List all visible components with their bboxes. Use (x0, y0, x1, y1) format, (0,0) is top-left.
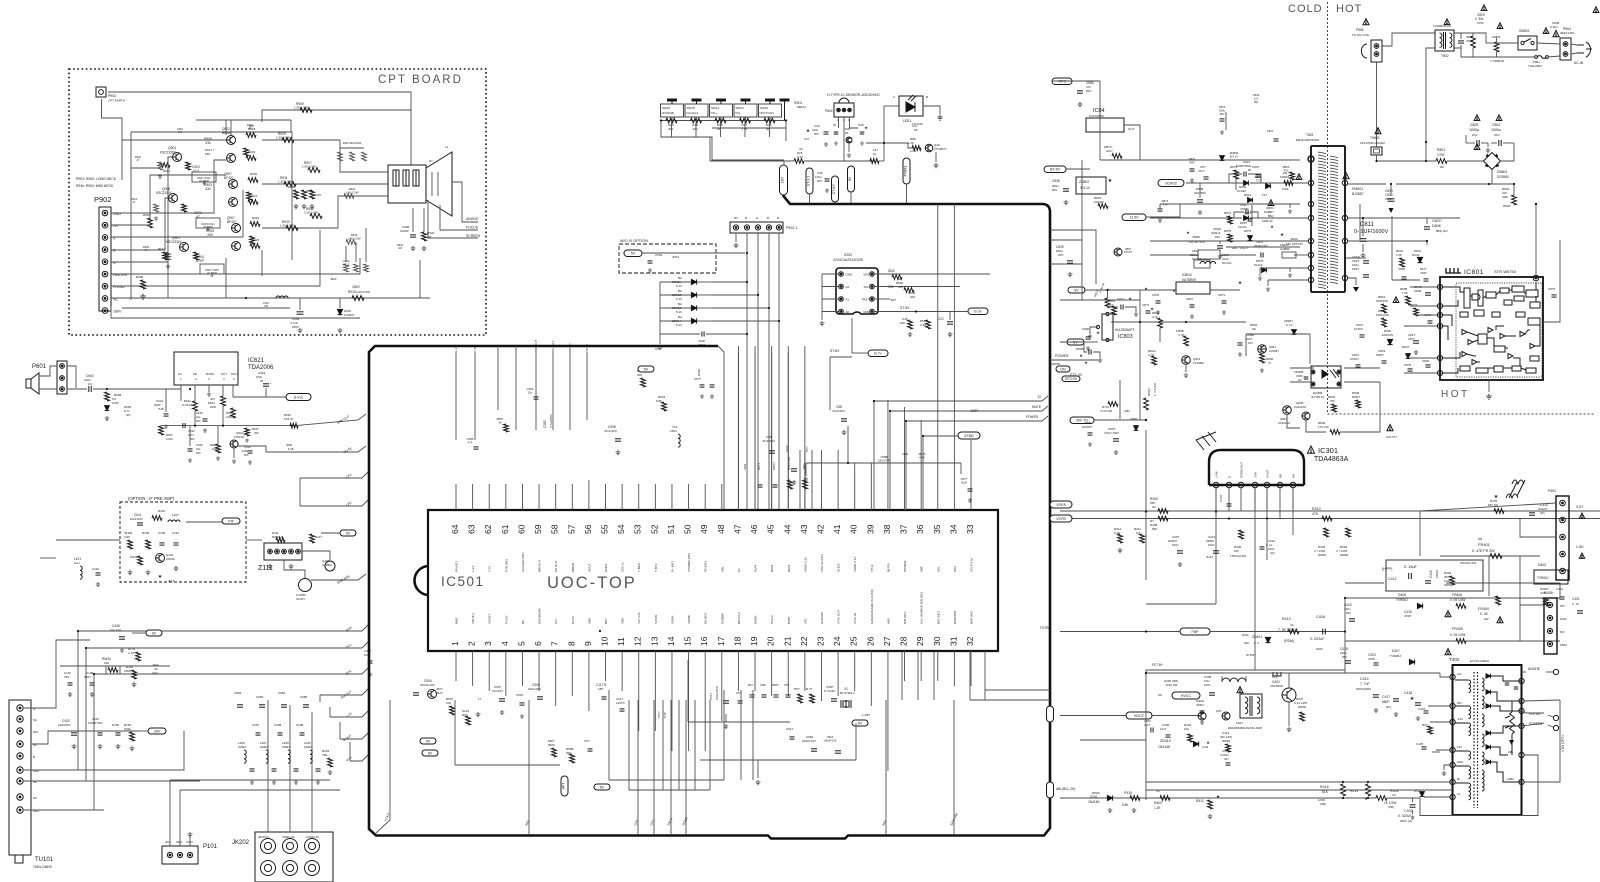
svg-text:TB02: TB02 (1441, 54, 1449, 58)
svg-text:GHD3: GHD3 (837, 563, 841, 572)
svg-text:IC621: IC621 (248, 358, 265, 364)
svg-text:OK(TTV/AV): OK(TTV/AV) (760, 111, 774, 115)
svg-text:C890: C890 (1082, 327, 1090, 331)
divider dashed horizontal (1328, 413, 1595, 415)
wire fuse wires (1548, 56, 1560, 57)
svg-text:TDA4863A: TDA4863A (1314, 456, 1349, 463)
cpt top resistor R909 wire (290, 120, 292, 132)
eeprom right pins (870, 272, 875, 277)
net pill 30V (148, 728, 166, 734)
resistor p101 pull (189, 836, 191, 846)
svg-text:1000o: 1000o (1491, 128, 1501, 132)
svg-text:9V: 9V (152, 631, 157, 635)
svg-text:XTAL OUT: XTAL OUT (837, 609, 841, 624)
gnd ic621 pin3 (208, 389, 210, 392)
svg-text:1/2W: 1/2W (112, 401, 119, 405)
thermistor TH802 (1375, 128, 1381, 134)
svg-text:25: 25 (260, 379, 264, 383)
net pill preamp out (222, 518, 240, 524)
svg-text:<TO CPT>: <TO CPT> (1561, 735, 1565, 752)
svg-text:17: 17 (716, 636, 726, 646)
wire hot gnd ic801 (1488, 380, 1490, 392)
svg-text:KA431AZ: KA431AZ (1278, 421, 1290, 425)
svg-text:VW (5v): VW (5v) (471, 613, 475, 624)
IC301 body (1209, 450, 1304, 485)
svg-text:AT24C04/AT24C02B: AT24C04/AT24C02B (833, 258, 862, 262)
svg-text:1k 5K1/2: 1k 5K1/2 (182, 403, 193, 407)
svg-text:C401: C401 (1572, 597, 1580, 601)
divider dashed vertical (1327, 2, 1329, 414)
svg-text:R903: R903 (143, 213, 151, 217)
svg-text:153/1?0P: 153/1?0P (878, 458, 890, 462)
svg-text:5V: 5V (600, 785, 605, 789)
svg-text:120uF/15V: 120uF/15V (715, 686, 719, 700)
svg-text:(OPTION - IF PRE AMP): (OPTION - IF PRE AMP) (128, 496, 175, 501)
svg-text:D?60: D?60 (112, 723, 120, 727)
wire rgb verticals (746, 233, 748, 510)
wire q812 (1287, 414, 1300, 428)
wire cpt left drop (102, 99, 123, 180)
keypad bus wire (661, 120, 786, 122)
svg-text:P404: P404 (1548, 489, 1556, 493)
capacitor C809 across (1481, 5, 1487, 11)
T803 winding hatch right (1330, 156, 1338, 284)
svg-text:47u?: 47u? (1198, 169, 1205, 173)
wire fr401 (1440, 555, 1540, 557)
svg-text:B: B (33, 755, 35, 759)
svg-text:C209: C209 (296, 723, 304, 727)
svg-text:1M: 1M (427, 235, 432, 239)
svg-text:P5 (NC): P5 (NC) (704, 561, 708, 572)
wire degauss drop (1376, 62, 1378, 147)
svg-text:JW?: JW? (890, 298, 896, 302)
svg-text:SW15: SW15 (687, 106, 696, 110)
svg-text:30V: 30V (33, 730, 38, 734)
wire ic804 (1140, 289, 1176, 291)
wire tuner IF out (24, 640, 90, 708)
warning t802 (1444, 19, 1450, 25)
svg-text:P-IN (NC): P-IN (NC) (504, 559, 508, 572)
resistor R901b 1.6K (308, 168, 320, 173)
wire hout pill (1126, 712, 1152, 719)
svg-text:KTC3?: KTC3? (1124, 250, 1133, 254)
svg-text:ST-6V: ST-6V (830, 349, 840, 353)
svg-text:BhA4: BhA4 (770, 564, 774, 572)
svg-text:15: 15 (683, 636, 693, 646)
wire preamp links (186, 521, 222, 523)
svg-text:R91k: R903: MINI NECK: R91k: R903: MINI NECK (76, 184, 114, 188)
T402 gnd stub (1444, 765, 1453, 770)
output transistor pair green (229, 180, 238, 189)
below IC - pill AFT (561, 776, 568, 796)
resistor R919 (246, 156, 256, 161)
svg-text:Y BY2: Y BY2 (654, 563, 658, 572)
svg-text:C5?: C5? (805, 446, 809, 452)
svg-text:10K?: 10K? (1106, 149, 1113, 153)
svg-text:(MONO): (MONO) (258, 835, 269, 839)
svg-text:R919: R919 (248, 150, 256, 154)
wire main to power horiz1 (1050, 239, 1082, 241)
svg-text:25V: 25V (1342, 655, 1347, 659)
svg-text:150K1/2W: 150K1/2W (1376, 313, 1389, 317)
svg-text:VP1: VP1 (803, 618, 807, 624)
svg-text:50V: 50V (196, 419, 201, 423)
wire abl loop (1387, 755, 1538, 816)
svg-text:C114: C114 (172, 531, 179, 535)
IC501 top pin wires (455, 484, 457, 510)
wire ic803 region (1060, 299, 1140, 301)
svg-text:1 5K: 1 5K (1402, 291, 1408, 295)
wire b+ junction dots (1342, 781, 1344, 783)
power mid extra wires (1050, 230, 1096, 284)
svg-text:330: 330 (207, 233, 213, 237)
svg-text:D84B: D84B (1076, 347, 1084, 351)
wire rgb outputs (262, 139, 340, 141)
power rail t803 top (1225, 112, 1227, 130)
transistor Q402 hout (1282, 688, 1296, 702)
svg-text:R921: R921 (250, 194, 258, 198)
svg-text:Ph+LF: Ph+LF (770, 615, 774, 624)
wire pwm1 to border (906, 184, 908, 203)
svg-text:5V: 5V (428, 751, 433, 755)
svg-text:5V: 5V (644, 367, 649, 371)
svg-text:50V: 50V (1086, 89, 1091, 93)
svg-text:14V: 14V (1457, 745, 1462, 749)
svg-text:10K: 10K (104, 661, 109, 665)
svg-text:VC5 1v: VC5 1v (621, 562, 625, 572)
svg-text:★: ★ (1144, 286, 1148, 291)
svg-text:61: 61 (500, 524, 510, 534)
svg-text:4.7K: 4.7K (919, 455, 925, 459)
connector P902-1 (730, 222, 783, 233)
svg-text:1: 1 (450, 641, 460, 646)
svg-text:TU101: TU101 (35, 857, 54, 863)
svg-text:(RDM): (RDM) (1284, 639, 1294, 643)
svg-text:R441: R441 (1242, 633, 1249, 637)
svg-text:58: 58 (550, 524, 560, 534)
svg-text:VA: VA (290, 417, 294, 421)
svg-text:330: 330 (205, 141, 211, 145)
svg-text:TP 3v: TP 3v (870, 564, 874, 572)
svg-text:0. 05 1/2W: 0. 05 1/2W (1450, 633, 1465, 637)
svg-text:12: 12 (633, 636, 643, 646)
eeprom chip body (836, 268, 878, 314)
resistor R924 cluster (250, 222, 260, 227)
svg-text:JW22: JW22 (1290, 237, 1298, 241)
wire abl bus (1060, 797, 1376, 799)
svg-text:60: 60 (516, 524, 526, 534)
capacitor C28 mid (834, 132, 839, 134)
power v line x1082 (1081, 240, 1083, 300)
svg-text:R937: R937 (314, 193, 322, 197)
svg-text:31: 31 (948, 636, 958, 646)
pill ST-6V left (1044, 166, 1066, 173)
svg-text:R8?5: R8?5 (1224, 229, 1232, 233)
svg-text:BF420: BF420 (222, 131, 232, 135)
T803 right pins (1342, 180, 1347, 185)
svg-text:D405: D405 (1398, 593, 1406, 597)
svg-text:14: 14 (666, 636, 676, 646)
svg-text:IC301: IC301 (1318, 446, 1338, 455)
svg-text:A0: A0 (846, 310, 850, 314)
svg-text:L584: L584 (670, 429, 677, 433)
svg-text:HOT: HOT (1336, 3, 1362, 15)
svg-text:0. 47E FR 2W: 0. 47E FR 2W (1472, 549, 1495, 553)
svg-text:150K/PW: 150K/PW (1376, 299, 1388, 303)
svg-text:220uF/10V: 220uF/10V (420, 683, 435, 687)
svg-text:★: ★ (1494, 494, 1499, 500)
svg-text:ZD401: ZD401 (1252, 635, 1262, 639)
wire led feed row (866, 142, 908, 144)
wire sw801 to plug (1537, 43, 1560, 44)
gnd stubs t803 left (1290, 204, 1296, 208)
wires to bottom border long (528, 700, 530, 835)
svg-text:25: 25 (849, 636, 859, 646)
svg-text:250V: 250V (292, 325, 299, 329)
svg-text:C425: C425 (1416, 742, 1424, 746)
svg-text:C8?1: C8?1 (1218, 293, 1226, 297)
svg-text:VA: VA (1290, 623, 1294, 627)
svg-text:C804: C804 (1492, 123, 1500, 127)
wire p403 drops (1520, 604, 1544, 606)
svg-text:SCL: SCL (936, 566, 940, 572)
svg-text:★: ★ (158, 574, 163, 580)
transistor Q906 (169, 194, 178, 203)
hpp box wires (1345, 582, 1384, 584)
svg-text:P5 (NC): P5 (NC) (455, 561, 459, 572)
wire q811 frame (1245, 334, 1247, 356)
svg-text:25A?: 25A? (436, 691, 443, 695)
svg-text:30: 30 (932, 636, 942, 646)
output transistor pair blue (232, 224, 241, 233)
wire rails t802 right (1454, 33, 1486, 43)
svg-text:38: 38 (882, 524, 892, 534)
svg-text:VPH AV (NC): VPH AV (NC) (820, 554, 824, 572)
wire 180V bus (111, 306, 360, 318)
svg-text:VCCB7: VCCB7 (488, 614, 492, 624)
wire lower t803 (1346, 257, 1366, 259)
svg-text:R511 330: R511 330 (787, 457, 791, 470)
capacitor C621 top small (75, 380, 77, 388)
wire P903 to CRT (108, 92, 411, 165)
wire notch step (718, 346, 724, 510)
cpt long wire p903 branch (122, 139, 226, 141)
net pill 5V above IC (638, 366, 654, 372)
svg-text:75E: 75E (322, 753, 327, 757)
svg-text:ZD802: ZD802 (1079, 180, 1089, 184)
svg-text:32: 32 (965, 636, 975, 646)
svg-text:2.2K/0.5W: 2.2K/0.5W (356, 290, 370, 294)
wire p101 bus (170, 779, 330, 781)
svg-text:47u/16V: 47u/16V (492, 689, 503, 693)
svg-text:7. 7nF: 7. 7nF (1360, 682, 1370, 686)
capacitor C908 1000p (412, 208, 414, 232)
svg-text:B4?: B4? (748, 683, 753, 687)
T402 primary winding segments (1469, 680, 1471, 693)
svg-text:2 2U: 2 2U (188, 433, 194, 437)
resistor R909 1.5K 1/2W wire (262, 110, 340, 122)
ground cluster under resistors (294, 204, 299, 209)
svg-text:5V: 5V (346, 531, 351, 535)
svg-text:C84?: C84? (1186, 297, 1194, 301)
R903 R913 cluster (148, 218, 153, 228)
wire av vertical collectors (319, 695, 321, 702)
T402 pin wires left (1440, 673, 1453, 677)
wire bridge out (1491, 170, 1493, 185)
svg-text:30V: 30V (817, 179, 822, 183)
svg-text:470P: 470P (1368, 657, 1375, 661)
svg-text:0- 1UF/1600V: 0- 1UF/1600V (1354, 229, 1389, 235)
below ic extra verticals (628, 700, 630, 790)
wire tuner bus scl (24, 780, 200, 782)
capacitor C903 cluster (294, 190, 299, 199)
svg-text:D2SB60: D2SB60 (1497, 175, 1509, 179)
resistor R117 (310, 534, 315, 543)
svg-text:FB: FB (264, 304, 268, 308)
svg-text:55: 55 (600, 524, 610, 534)
svg-text:R40MHZ: R40MHZ (272, 535, 283, 539)
wire st8v pill (958, 432, 980, 439)
svg-text:P601: P601 (32, 364, 47, 370)
svg-text:PIF: PIF (228, 519, 234, 523)
net pill ST-BY above IC (830, 356, 852, 358)
IC801 inner dashed (1456, 283, 1542, 377)
svg-text:7UB: 7UB (158, 407, 164, 411)
svg-text:100uF/10V: 100uF/10V (802, 739, 816, 743)
svg-text:40: 40 (849, 524, 859, 534)
svg-text:G: G (113, 261, 116, 265)
svg-text:5GND: 5GND (206, 372, 214, 376)
wire av to main FM_OUT (320, 689, 368, 695)
svg-text:Y-3V: Y-3V (488, 566, 492, 572)
cpt wire stage verticals (167, 262, 169, 298)
svg-text:400: 400 (910, 295, 915, 299)
svg-text:1.5K 1/2W: 1.5K 1/2W (347, 236, 360, 240)
svg-text:★C?: ★C? (168, 579, 175, 583)
svg-text:VCLP 6.5v: VCLP 6.5v (970, 557, 974, 572)
svg-text:K5UH?L401: K5UH?L401 (1460, 561, 1477, 565)
svg-text:27: 27 (882, 636, 892, 646)
svg-text:VOL+: VOL+ (711, 111, 718, 115)
svg-text:D402: D402 (1538, 563, 1546, 567)
eeprom left pins (839, 272, 844, 277)
svg-text:SW14: SW14 (711, 106, 720, 110)
transformer T803 body (1311, 146, 1345, 292)
wire below IC h-links (725, 714, 727, 722)
resistor R940 1.5K (310, 214, 322, 219)
svg-text:P902-1: P902-1 (786, 226, 798, 230)
svg-text:C629: C629 (196, 443, 203, 447)
power small rect L802 (1194, 260, 1210, 268)
svg-text:C826: C826 (1398, 267, 1406, 271)
pill ON small (1056, 366, 1070, 372)
svg-text:C402: C402 (1404, 809, 1413, 813)
svg-text:★: ★ (1096, 330, 1100, 335)
diode D901 1N4937 (339, 298, 341, 308)
svg-text:SW10: SW10 (662, 106, 671, 110)
pill 13.5V (1122, 214, 1146, 221)
svg-text:±1u?: ±1u? (1160, 727, 1167, 731)
svg-text:V7GNB3 (NC): V7GNB3 (NC) (687, 553, 691, 572)
svg-text:GROBOW5: GROBOW5 (538, 608, 542, 624)
svg-text:±5: ±5 (833, 123, 837, 127)
svg-text:54: 54 (616, 524, 626, 534)
wire cold rail main (1160, 203, 1300, 205)
svg-text:Q4?: Q4? (1216, 709, 1222, 713)
svg-text:CH(-/Dwn): CH(-/Dwn) (686, 111, 698, 115)
svg-text:LOCK: LOCK (166, 437, 173, 441)
svg-text:0-5E: 0-5E (1282, 187, 1288, 191)
svg-text:220E?: 220E? (282, 745, 291, 749)
svg-text:1M: 1M (398, 246, 402, 250)
wire p601 top jog (67, 366, 76, 380)
svg-text:50V: 50V (196, 451, 201, 455)
svg-text:C517: C517 (709, 692, 713, 700)
IC801 internals row1 (1464, 288, 1470, 308)
svg-text:LED1: LED1 (903, 119, 911, 123)
svg-text:3: 3 (483, 641, 493, 646)
svg-text:TO DG COIL: TO DG COIL (1352, 33, 1370, 37)
svg-text:13.5V: 13.5V (1129, 216, 1139, 220)
wire z111 right link (302, 551, 330, 560)
svg-text:C414: C414 (1360, 677, 1369, 681)
svg-text:C983: C983 (256, 695, 264, 699)
svg-text:ALCHGR (NC): ALCHGR (NC) (521, 552, 525, 572)
svg-text:C412: C412 (1388, 577, 1397, 581)
wire mute power to right edge (874, 396, 1048, 401)
svg-text:C413: C413 (1429, 570, 1433, 578)
svg-text:C110: C110 (92, 567, 99, 571)
svg-text:10K: 10K (1184, 727, 1189, 731)
svg-text:VCFB: VCFB (1056, 517, 1066, 521)
cpt bias boxes (192, 172, 216, 182)
wire hpp bus (1345, 597, 1560, 599)
svg-text:J605: J605 (286, 443, 293, 447)
svg-text:ABL: ABL (720, 566, 724, 572)
svg-text:R313: R313 (1312, 507, 1321, 511)
svg-text:4.7uF/50V: 4.7uF/50V (549, 414, 553, 428)
svg-text:0. 15uF: 0. 15uF (1404, 565, 1418, 569)
svg-text:AGC: AGC (152, 671, 159, 675)
IC801 internals triangles (1462, 329, 1467, 334)
svg-text:(RDM): (RDM) (1298, 705, 1306, 709)
svg-text:16: 16 (699, 636, 709, 646)
svg-text:5.1V: 5.1V (676, 297, 682, 301)
wire 180V components (245, 297, 247, 299)
svg-text:50V: 50V (814, 132, 819, 136)
svg-text:V-DY: V-DY (1576, 505, 1584, 509)
svg-text:29: 29 (915, 636, 925, 646)
svg-text:59: 59 (533, 524, 543, 534)
svg-text:18V: 18V (781, 176, 785, 183)
svg-text:T803: T803 (1306, 133, 1313, 137)
svg-text:AVL 3D/WAVE BW (NC): AVL 3D/WAVE BW (NC) (920, 592, 924, 624)
svg-text:30V: 30V (154, 729, 161, 733)
svg-text:★: ★ (1206, 740, 1210, 745)
capacitor C805 1000p (1474, 115, 1480, 121)
svg-text:26: 26 (865, 636, 875, 646)
T402 secondary diodes (1486, 674, 1491, 678)
svg-text:S-Vcc: S-Vcc (294, 395, 304, 399)
svg-text:B 7v: B 7v (874, 352, 881, 356)
svg-text:4. 7U: 4. 7U (1572, 602, 1579, 606)
svg-text:OUT: OUT (221, 372, 227, 376)
wire zener taps (712, 281, 747, 283)
zener ZD802 box (1076, 177, 1106, 194)
capacitor C909 4.7uF (299, 298, 301, 310)
svg-text:★: ★ (1186, 230, 1190, 235)
svg-text:V-OUT: V-OUT (1266, 469, 1270, 478)
